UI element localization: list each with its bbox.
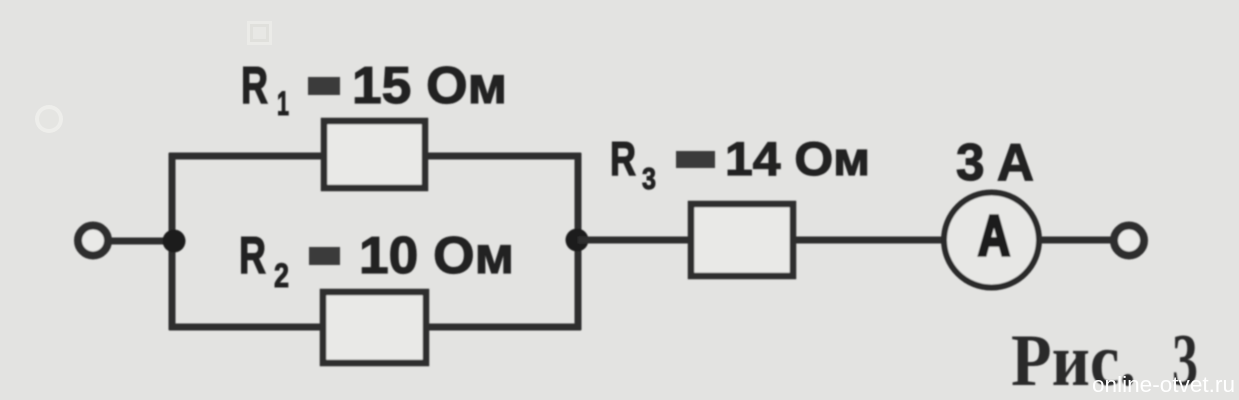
- node A (left junction dot): [163, 230, 186, 253]
- paper smudge spot: [35, 105, 63, 133]
- svg-text:R: R: [239, 227, 266, 285]
- terminal T2 (right output): [1114, 226, 1144, 256]
- svg-text:1: 1: [277, 85, 289, 123]
- node B (right junction dot): [566, 229, 589, 252]
- ammeter PA1 circle: [944, 193, 1039, 288]
- caption Ris. 3: [1011, 320, 1198, 400]
- svg-text:15 Ом: 15 Ом: [352, 57, 507, 115]
- svg-text:online-otvet.ru: online-otvet.ru: [1092, 372, 1235, 397]
- wire bottom rail left segment: [169, 324, 324, 331]
- wire left terminal lead: [106, 238, 174, 245]
- svg-text:3 A: 3 A: [956, 134, 1034, 192]
- resistor R1 body: [324, 121, 425, 188]
- paper smudge top: [247, 21, 272, 45]
- svg-text:3: 3: [642, 161, 656, 196]
- svg-text:R: R: [610, 132, 636, 185]
- svg-text:2: 2: [274, 257, 289, 295]
- wire node B to R3: [578, 237, 692, 244]
- resistor R2 body: [323, 292, 426, 363]
- value label R1 = 15 Om: [241, 57, 507, 123]
- svg-text:10 Ом: 10 Ом: [359, 227, 514, 285]
- wire top rail right segment: [424, 153, 581, 160]
- wire R3 to ammeter: [792, 237, 946, 244]
- svg-text:A: A: [978, 204, 1010, 268]
- wire top rail left segment: [169, 153, 325, 160]
- terminal T1 (left input): [78, 226, 108, 256]
- value label R3 = 14 Om: [610, 132, 870, 196]
- svg-text:R: R: [241, 57, 268, 115]
- value label R2 = 10 Om: [239, 227, 514, 295]
- wire right vertical bus: [575, 153, 582, 330]
- wire ammeter to right terminal: [1039, 237, 1114, 244]
- wire bottom rail right segment: [425, 324, 581, 331]
- wire left vertical bus: [169, 153, 176, 330]
- svg-text:14 Ом: 14 Ом: [725, 132, 870, 185]
- resistor R3 body: [691, 204, 793, 276]
